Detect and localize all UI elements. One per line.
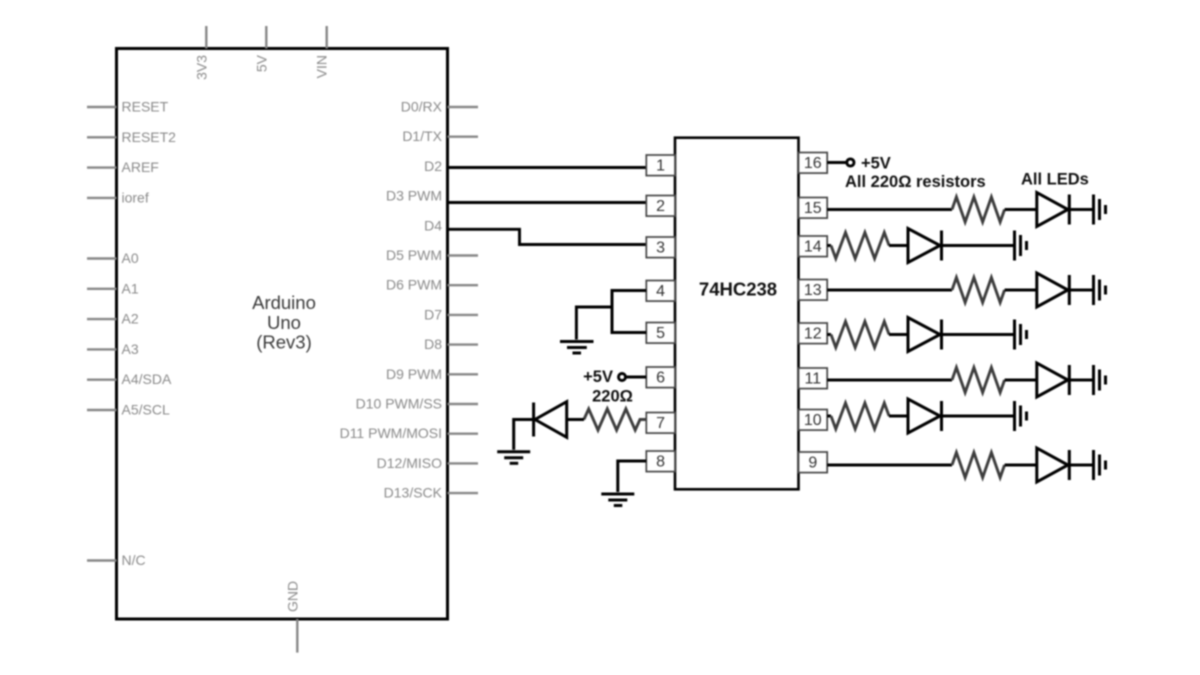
wire LED D8 to ground G2 [514,420,534,450]
svg-text:6: 6 [656,370,665,387]
pin ioref [87,189,149,205]
svg-text:D8: D8 [424,336,442,352]
pin D12/MISO [377,455,478,471]
svg-text:74HC238: 74HC238 [699,279,777,300]
svg-text:N/C: N/C [122,552,146,568]
svg-text:A3: A3 [122,341,139,357]
wire resistor R1 to LED1 [1005,208,1037,211]
wire resistor R7 to LED7 [1005,464,1037,467]
svg-text:GND: GND [284,581,300,612]
wire LED2 to ground G5 [942,244,1014,247]
ground G2 [497,452,530,464]
pin RESET [87,99,169,115]
wire pin 4 to junction [612,291,646,333]
svg-text:2: 2 [656,198,665,215]
pin box 4 [646,281,675,302]
svg-text:Arduino: Arduino [252,292,316,313]
wire junction to ground G1 [576,307,612,340]
wire resistor R4 to LED4 [889,333,908,336]
svg-text:D3 PWM: D3 PWM [386,188,442,204]
svg-text:13: 13 [804,282,822,299]
+5V supply at pin 6 [583,368,646,386]
svg-text:VIN: VIN [314,55,330,78]
pin box 11 [799,368,828,389]
LED5 [1037,363,1070,397]
svg-text:D5 PWM: D5 PWM [386,247,442,263]
svg-text:+5V: +5V [583,368,613,386]
svg-text:5V: 5V [253,54,269,72]
pin 3V3 [193,26,209,80]
svg-text:220Ω: 220Ω [592,388,633,406]
pin box 5 [646,323,675,344]
LED1 [1037,193,1070,227]
pin box 6 [646,367,675,388]
svg-text:1: 1 [656,158,665,175]
pin A1 [87,280,139,296]
pin box 14 [799,236,828,257]
wire pin 11 to resistor R5 [827,379,952,382]
pin A2 [87,311,139,327]
svg-text:8: 8 [656,454,665,471]
wire LED6 to ground G9 [942,415,1014,418]
svg-text:A1: A1 [122,280,139,296]
+5V supply at pin 16 [827,155,891,173]
wire pin 14 to resistor R2 [827,244,831,247]
wire LED3 to ground G6 [1069,289,1092,292]
svg-text:ioref: ioref [122,189,149,205]
IC U2 74HC238 body [675,138,799,490]
ground G1 [560,342,594,354]
pin D1/TX [402,128,478,144]
pin A5/SCL [87,402,170,418]
svg-text:D11 PWM/MOSI: D11 PWM/MOSI [340,425,442,441]
ground G8 [1094,365,1106,395]
svg-text:All 220Ω resistors: All 220Ω resistors [845,173,986,191]
pin D0/RX [401,99,478,115]
LED2 [908,229,942,263]
svg-text:16: 16 [804,155,822,172]
pin D6 PWM [386,277,478,293]
svg-text:D1/TX: D1/TX [402,128,442,144]
pin D10 PWM/SS [356,396,478,412]
svg-text:3: 3 [656,240,665,257]
svg-text:D10 PWM/SS: D10 PWM/SS [356,396,442,412]
svg-text:D2: D2 [424,158,442,174]
wire pin 10 to resistor R6 [827,415,831,418]
wire pin 8 to ground G3 [618,461,647,492]
svg-text:RESET: RESET [122,99,169,115]
LED D8 at pin 7 [534,402,584,438]
svg-text:D9 PWM: D9 PWM [386,366,442,382]
svg-text:A0: A0 [122,250,139,266]
svg-text:D0/RX: D0/RX [401,99,443,115]
pin GND [284,581,300,653]
wire LED4 to ground G7 [942,333,1014,336]
svg-text:11: 11 [804,371,821,388]
svg-text:D12/MISO: D12/MISO [377,455,442,471]
svg-text:D6 PWM: D6 PWM [386,277,442,293]
ground G4 [1094,195,1106,225]
svg-text:9: 9 [808,455,817,472]
pin box 12 [799,323,828,344]
svg-text:Uno: Uno [267,312,301,333]
resistor R5 [952,368,1005,393]
wire resistor R2 to LED2 [889,244,908,247]
pin box 16 [799,153,828,174]
ground G7 [1015,320,1027,350]
pin VIN [314,26,330,78]
pin A3 [87,341,139,357]
svg-text:A5/SCL: A5/SCL [122,402,170,418]
resistor R3 [952,278,1005,303]
svg-text:D13/SCK: D13/SCK [384,485,443,501]
ground G9 [1015,401,1027,431]
pin box 7 [646,413,675,434]
ground G10 [1094,450,1106,480]
svg-text:3V3: 3V3 [193,55,209,80]
svg-text:D4: D4 [424,217,442,233]
pin box 3 [646,237,675,258]
LED3 [1037,273,1070,307]
resistor R4 [831,322,889,348]
svg-text:4: 4 [656,283,665,300]
svg-text:(Rev3): (Rev3) [256,332,312,353]
Arduino Uno board U1 [117,49,448,620]
svg-text:D7: D7 [424,306,442,322]
pin 5V [253,26,269,72]
pin AREF [87,159,159,175]
ground G5 [1015,231,1027,261]
svg-text:RESET2: RESET2 [122,129,177,145]
wire pin 9 to resistor R7 [827,464,952,467]
svg-text:15: 15 [804,200,822,217]
wire D2 to pin 1 [448,166,648,169]
resistor R2 [831,233,889,259]
pin box 8 [646,451,675,472]
wire D3 to pin 2 [448,201,648,204]
LED4 [908,318,942,352]
pin box 10 [799,410,828,431]
resistor R8 220 ohm at pin 7 [584,409,646,430]
svg-text:10: 10 [804,412,822,429]
pin D9 PWM [386,366,478,382]
wire resistor R6 to LED6 [889,415,908,418]
pin box 1 [646,155,675,176]
pin A4/SDA [87,371,172,387]
pin RESET2 [87,129,176,145]
wire LED7 to ground G10 [1069,464,1092,467]
pin D11 PWM/MOSI [340,425,478,441]
svg-text:5: 5 [656,325,665,342]
LED7 [1037,448,1070,482]
pin box 2 [646,196,675,217]
pin D8 [424,336,478,352]
pin D7 [424,306,478,322]
pin D5 PWM [386,247,478,263]
wire D4 to pin 3 [448,229,648,244]
ground G3 [601,494,634,506]
resistor R7 [952,453,1005,478]
LED6 [908,399,942,433]
svg-text:+5V: +5V [861,155,891,173]
pin D13/SCK [384,485,478,501]
wire LED1 to ground G4 [1069,208,1092,211]
wire resistor R5 to LED5 [1005,379,1037,382]
svg-text:14: 14 [804,239,822,256]
wire resistor R3 to LED3 [1005,289,1037,292]
pin A0 [87,250,139,266]
svg-text:A2: A2 [122,311,139,327]
wire pin 15 to resistor R1 [827,208,952,211]
ground G6 [1094,275,1106,305]
pin box 13 [799,280,828,301]
wire pin 13 to resistor R3 [827,289,952,292]
svg-text:All LEDs: All LEDs [1021,171,1089,189]
svg-text:A4/SDA: A4/SDA [122,371,172,387]
pin N/C [87,552,146,568]
resistor R1 [952,197,1005,222]
svg-text:AREF: AREF [122,159,159,175]
svg-text:7: 7 [656,415,665,432]
Arduino Uno label [252,292,316,353]
wire pin 12 to resistor R4 [827,333,831,336]
resistor R6 [831,403,889,429]
svg-text:12: 12 [804,326,822,343]
pin box 15 [799,198,828,219]
wire LED5 to ground G8 [1069,379,1092,382]
pin box 9 [799,452,828,473]
